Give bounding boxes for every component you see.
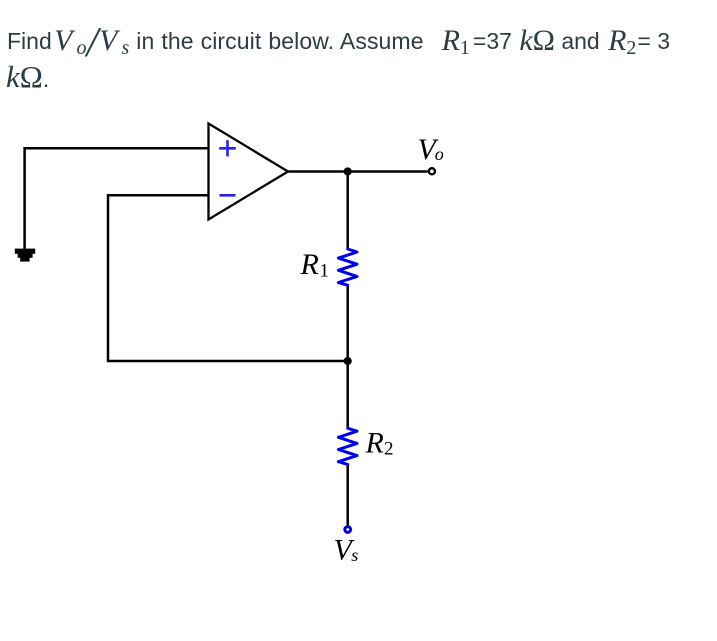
svg-text:s: s: [351, 545, 358, 565]
svg-text:R: R: [300, 248, 319, 281]
svg-text:1: 1: [320, 261, 330, 282]
svg-text:2: 2: [384, 439, 394, 460]
svg-text:R: R: [365, 427, 384, 460]
svg-text:o: o: [435, 144, 444, 164]
